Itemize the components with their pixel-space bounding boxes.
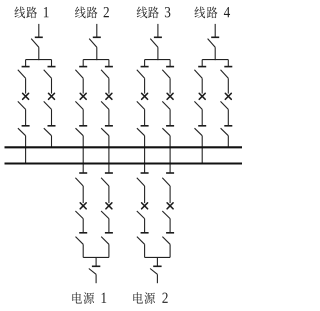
wire line1b to breaker [51, 78, 53, 93]
node line4 split tee [202, 59, 228, 61]
disconnector QSs1a (source bus selector) [75, 173, 87, 186]
disconnector QS3b (branch isolator) [162, 67, 174, 79]
label 线路 3 [137, 7, 171, 19]
wire source2b mid [169, 219, 171, 233]
disconnector QSs2a (source bus selector) [137, 173, 149, 186]
wire source1b to breaker [108, 186, 110, 203]
wire line1b mid [51, 109, 53, 125]
disconnector QS3b2 (below breaker) [162, 101, 170, 109]
wire source2a to merge [144, 244, 146, 257]
disconnector QSs20 (source incoming) [150, 266, 162, 274]
disconnector QSs1b2 (below breaker) [101, 211, 109, 219]
node source2 merge tee [145, 256, 171, 258]
disconnector QS1a3 (bus selector) [18, 126, 30, 136]
breaker QFs1a [80, 203, 86, 209]
disconnector QS2a2 (below breaker) [75, 101, 83, 109]
disconnector QS4a (branch isolator) [194, 67, 206, 79]
breaker QF1a [23, 93, 29, 99]
disconnector QS2a3 (bus selector) [76, 126, 88, 136]
node line1 split tee [26, 59, 52, 61]
wire line4 right drop [227, 60, 229, 67]
busbar W1 (upper bus) [5, 146, 243, 148]
disconnector QSs2b3 [162, 233, 174, 245]
wire source1 stem lower [95, 274, 97, 283]
wire line4a mid [201, 109, 203, 125]
breaker QFs2b [167, 203, 173, 209]
wire line1 stem lower [38, 47, 40, 60]
label 线路 4 [195, 7, 231, 19]
wire line3 stem lower [157, 47, 159, 60]
breaker QF2a [80, 93, 86, 99]
breaker QF4a [199, 93, 205, 99]
breaker QFs2a [142, 203, 148, 209]
wire source2b to merge [169, 244, 171, 257]
breaker QF1b [49, 93, 55, 99]
wire source2a mid [144, 219, 146, 233]
disconnector QS3a (branch isolator) [137, 67, 149, 79]
wire line3a to breaker [144, 78, 146, 93]
disconnector QS40 (line 4 outgoing) [208, 37, 220, 47]
label 电源 2 [133, 292, 167, 304]
wire line1 stem top [38, 24, 40, 37]
wire line1 right drop [51, 60, 53, 67]
wire source2b to breaker [169, 186, 171, 203]
wire line3 right drop [169, 60, 171, 67]
disconnector QSs2a3 [137, 233, 149, 245]
disconnector QS3a2 (below breaker) [137, 101, 145, 109]
busbar W2 (lower bus) [5, 162, 243, 164]
wire line3a to busbar [144, 136, 146, 173]
breaker QF4b [225, 93, 231, 99]
disconnector QS4a2 (below breaker) [194, 101, 202, 109]
node line3 split tee [145, 59, 171, 61]
wire line4a to busbar [201, 136, 203, 164]
wire source2 stem upper [156, 257, 158, 266]
disconnector QS3b3 (bus selector) [162, 126, 174, 136]
wire line4b to busbar [227, 136, 229, 148]
disconnector QSs2a2 (below breaker) [137, 211, 145, 219]
disconnector QSs2b (source bus selector) [162, 173, 174, 186]
wire source2 stem lower [156, 274, 158, 283]
wire line1a to breaker [25, 78, 27, 93]
wire line3 stem top [157, 24, 159, 37]
disconnector QS4b2 (below breaker) [221, 101, 229, 109]
wire source1a to merge [82, 244, 84, 257]
disconnector QS4a3 (bus selector) [195, 126, 207, 136]
breaker QF2b [106, 93, 112, 99]
wire source2a to breaker [144, 186, 146, 203]
node source1 merge tee [83, 256, 109, 258]
disconnector QS3a3 (bus selector) [137, 126, 149, 136]
wire line2 stem top [96, 24, 98, 37]
disconnector QS2b3 (bus selector) [101, 126, 113, 136]
wire line3 left drop [144, 60, 146, 67]
wire line1 left drop [25, 60, 27, 67]
wire source1b to merge [108, 244, 110, 257]
node line2 split tee [83, 59, 109, 61]
wire line2 right drop [108, 60, 110, 67]
wire line3b to busbar [169, 136, 171, 173]
disconnector QS2b2 (below breaker) [101, 101, 109, 109]
wire line2a to breaker [82, 78, 84, 93]
disconnector QS2b (branch isolator) [101, 67, 113, 79]
wire line2a mid [82, 109, 84, 125]
wire line2b to busbar [108, 136, 110, 173]
wire line4 left drop [201, 60, 203, 67]
breaker QFs1b [106, 203, 112, 209]
wire line2 left drop [82, 60, 84, 67]
breaker QF3a [142, 93, 148, 99]
disconnector QSs10 (source incoming) [89, 266, 101, 274]
wire line2b mid [108, 109, 110, 125]
disconnector QSs1a3 [76, 233, 88, 245]
wire line4a to breaker [201, 78, 203, 93]
disconnector QS4b (branch isolator) [221, 67, 233, 79]
breaker QF3b [167, 93, 173, 99]
disconnector QS1b3 (bus selector) [44, 126, 56, 136]
disconnector QSs1b (source bus selector) [101, 173, 113, 186]
wire line4b to breaker [227, 78, 229, 93]
wire line3a mid [144, 109, 146, 125]
disconnector QSs2b2 (below breaker) [162, 211, 170, 219]
wire line3b to breaker [169, 78, 171, 93]
wire source1 stem upper [95, 257, 97, 266]
wire line2b to breaker [108, 78, 110, 93]
disconnector QS30 (line 3 outgoing) [150, 37, 162, 47]
label 线路 1 [15, 7, 49, 19]
disconnector QS1b (branch isolator) [44, 67, 56, 79]
wire line4 stem lower [214, 47, 216, 60]
wire source1a mid [82, 219, 84, 233]
label 电源 1 [72, 292, 106, 304]
wire line1a to busbar [25, 136, 27, 164]
wire line4 stem top [214, 24, 216, 37]
wire line1a mid [25, 109, 27, 125]
wire source1a to breaker [82, 186, 84, 203]
disconnector QS4b3 (bus selector) [221, 126, 233, 136]
disconnector QSs1a2 (below breaker) [75, 211, 83, 219]
label 线路 2 [75, 7, 109, 19]
disconnector QS1b2 (below breaker) [44, 101, 52, 109]
disconnector QSs1b3 [101, 233, 113, 245]
wire line2 stem lower [96, 47, 98, 60]
wire source1b mid [108, 219, 110, 233]
disconnector QS1a (branch isolator) [18, 67, 30, 79]
disconnector QS10 (line 1 outgoing) [31, 37, 43, 47]
wire line2a to busbar [82, 136, 84, 173]
disconnector QS20 (line 2 outgoing) [89, 37, 101, 47]
disconnector QS2a (branch isolator) [75, 67, 87, 79]
wire line3b mid [169, 109, 171, 125]
wire line1b to busbar [51, 136, 53, 148]
disconnector QS1a2 (below breaker) [18, 101, 26, 109]
wire line4b mid [227, 109, 229, 125]
